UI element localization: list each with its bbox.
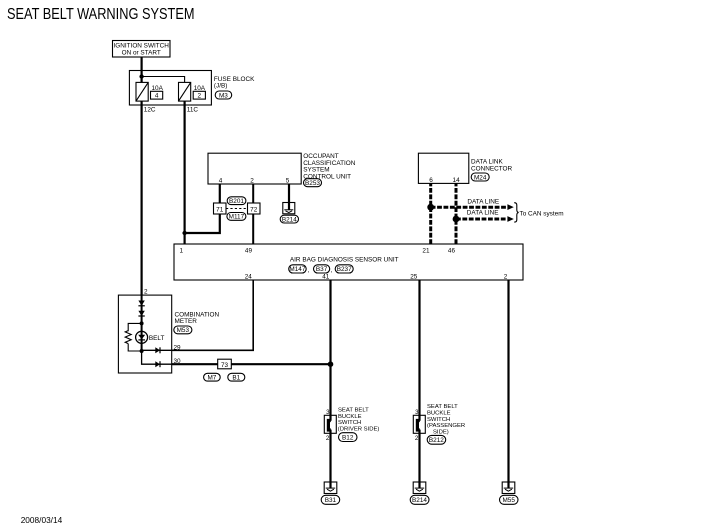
svg-text:DATA LINE: DATA LINE bbox=[467, 198, 499, 205]
svg-text:2: 2 bbox=[198, 93, 202, 100]
wire OCS pin 5 to ground connector bbox=[288, 184, 290, 210]
svg-text:To CAN system: To CAN system bbox=[520, 210, 564, 217]
data link connector M24 bbox=[418, 153, 512, 184]
svg-text:14: 14 bbox=[453, 177, 461, 184]
svg-text:25: 25 bbox=[410, 274, 418, 281]
svg-text:10A: 10A bbox=[194, 85, 206, 92]
svg-text:M24: M24 bbox=[474, 174, 487, 181]
diode D1 (down) bbox=[138, 301, 144, 306]
connector label B201 bbox=[227, 197, 246, 205]
connector 73 bbox=[218, 359, 232, 369]
seat belt buckle switch driver side B12 bbox=[324, 408, 379, 443]
svg-text:BELT: BELT bbox=[149, 335, 165, 342]
svg-text:M55: M55 bbox=[502, 497, 515, 504]
svg-text:DATA LINE: DATA LINE bbox=[467, 210, 499, 217]
wire meter pin 30 to junction with pin 41 wire bbox=[172, 363, 331, 365]
svg-text:2: 2 bbox=[415, 435, 419, 442]
wire 12C to combination meter pin 2 bbox=[141, 101, 143, 295]
svg-text:B201: B201 bbox=[229, 198, 244, 205]
svg-text:B1: B1 bbox=[232, 375, 240, 382]
svg-text:AIR BAG DIAGNOSIS SENSOR UNIT: AIR BAG DIAGNOSIS SENSOR UNIT bbox=[290, 257, 399, 264]
occupant classification system control unit U-B253 bbox=[208, 153, 356, 187]
wire shielded DLC pin 14 to air bag pin 46 bbox=[455, 183, 458, 244]
wire shielded DLC pin 6 to air bag pin 21 bbox=[429, 183, 432, 244]
svg-text:M7: M7 bbox=[207, 375, 216, 382]
svg-text:,: , bbox=[308, 267, 310, 274]
diode D4 (right) to pin 30 bbox=[155, 361, 160, 367]
wire ignition switch to fuse block bbox=[141, 57, 143, 82]
wire OCS pin 2 to air bag pin 49 bbox=[252, 184, 254, 244]
svg-text:METER: METER bbox=[175, 318, 198, 325]
connector label M7 bbox=[204, 373, 221, 381]
wire connector 71 to OCS pin 4 bbox=[219, 184, 221, 203]
svg-text:B37: B37 bbox=[316, 266, 328, 273]
node junction pin41/pin30 bbox=[328, 361, 334, 367]
svg-text:B212: B212 bbox=[429, 437, 444, 444]
svg-text:2: 2 bbox=[144, 289, 148, 296]
svg-text:21: 21 bbox=[422, 247, 430, 254]
connector label B1 bbox=[228, 373, 245, 381]
svg-text:B253: B253 bbox=[305, 180, 320, 187]
svg-text:4: 4 bbox=[155, 93, 159, 100]
svg-text:73: 73 bbox=[221, 362, 229, 369]
diode D3 (right) to pin 29 bbox=[155, 347, 160, 353]
svg-text:2: 2 bbox=[504, 274, 508, 281]
svg-text:IGNITION SWITCH: IGNITION SWITCH bbox=[114, 43, 170, 50]
fuse block box bbox=[129, 71, 211, 106]
svg-text:SIDE): SIDE) bbox=[433, 429, 449, 435]
svg-text:M53: M53 bbox=[177, 327, 190, 334]
resistor branch wire bbox=[128, 323, 141, 331]
svg-text:(DRIVER SIDE): (DRIVER SIDE) bbox=[338, 426, 380, 432]
wire dashed connector link 71-72 bbox=[226, 208, 248, 210]
connector 71 bbox=[214, 203, 227, 214]
fuse 2 (10A) bbox=[179, 82, 206, 101]
svg-text:M117: M117 bbox=[229, 214, 245, 221]
svg-text:71: 71 bbox=[216, 207, 224, 214]
combination meter M53 bbox=[118, 289, 219, 374]
svg-text:(PASSENGER: (PASSENGER bbox=[427, 423, 465, 429]
svg-text:12C: 12C bbox=[144, 107, 156, 114]
wire 11C to air bag unit pin 1 bbox=[184, 101, 186, 244]
connector label M117 bbox=[227, 213, 246, 221]
wire driver switch to ground B31 bbox=[329, 430, 331, 488]
ground B214 (bottom) bbox=[410, 482, 429, 504]
svg-text:BUCKLE: BUCKLE bbox=[427, 411, 451, 417]
ground B31 bbox=[321, 482, 340, 504]
diode D2 (down) bbox=[138, 311, 144, 316]
ground B214 (OCS) bbox=[280, 203, 298, 224]
svg-text:10A: 10A bbox=[152, 85, 164, 92]
wire air bag pin 25 down to passenger switch bbox=[418, 280, 420, 421]
node junction above lamp bbox=[140, 321, 144, 325]
svg-text:3: 3 bbox=[326, 409, 330, 416]
wire to pin 29 bbox=[142, 349, 172, 351]
resistor R (zigzag) bbox=[125, 331, 131, 344]
svg-text:(J/B): (J/B) bbox=[214, 83, 228, 90]
wire air bag pin 2 down to ground M55 bbox=[507, 280, 509, 488]
svg-text:CONNECTOR: CONNECTOR bbox=[471, 165, 512, 172]
svg-text:41: 41 bbox=[322, 274, 330, 281]
svg-text:B237: B237 bbox=[337, 266, 352, 273]
svg-text:2: 2 bbox=[326, 435, 330, 442]
air bag diagnosis sensor unit bbox=[174, 244, 523, 281]
lamp BELT bbox=[136, 331, 165, 343]
to CAN system brace bbox=[514, 203, 518, 222]
wire meter internal vertical bbox=[141, 295, 143, 351]
svg-text:B31: B31 bbox=[325, 497, 337, 504]
wire passenger switch to ground B214 bbox=[418, 430, 420, 488]
fuse block label bbox=[214, 76, 255, 99]
seat belt buckle switch passenger side B212 bbox=[413, 404, 465, 444]
connector 72 bbox=[248, 203, 261, 214]
svg-text:B214: B214 bbox=[282, 216, 297, 223]
fuse 4 (10A) bbox=[136, 82, 164, 101]
svg-text:46: 46 bbox=[448, 247, 456, 254]
svg-text:11C: 11C bbox=[187, 107, 199, 114]
svg-text:49: 49 bbox=[245, 247, 253, 254]
svg-text:B214: B214 bbox=[412, 497, 427, 504]
svg-text:72: 72 bbox=[250, 207, 258, 214]
svg-text:,: , bbox=[331, 267, 333, 274]
wire branch to fuse 2 bbox=[142, 77, 185, 83]
node junction data line 2 bbox=[453, 216, 460, 223]
svg-text:24: 24 bbox=[245, 274, 253, 281]
svg-text:SWITCH: SWITCH bbox=[427, 417, 450, 423]
svg-text:ON or START: ON or START bbox=[122, 50, 161, 57]
svg-text:SWITCH: SWITCH bbox=[338, 420, 361, 426]
svg-text:4: 4 bbox=[219, 178, 223, 185]
wire air bag pin 24 to meter pin 29 bbox=[172, 280, 254, 350]
svg-text:2: 2 bbox=[250, 178, 254, 185]
svg-text:1: 1 bbox=[179, 247, 183, 254]
svg-text:2008/03/14: 2008/03/14 bbox=[21, 515, 63, 525]
ground M55 bbox=[500, 482, 519, 504]
node junction in fuse block bbox=[139, 74, 143, 78]
svg-text:M3: M3 bbox=[219, 92, 228, 99]
svg-text:3: 3 bbox=[415, 409, 419, 416]
node junction data line 1 bbox=[427, 204, 434, 211]
svg-text:BUCKLE: BUCKLE bbox=[338, 414, 362, 420]
svg-text:SEAT BELT: SEAT BELT bbox=[338, 408, 369, 414]
wire data line 1 bbox=[431, 206, 507, 209]
svg-text:M147: M147 bbox=[289, 266, 305, 273]
wire to pin 30 bbox=[142, 351, 172, 364]
ignition switch node bbox=[113, 41, 171, 58]
node junction below lamp bbox=[140, 349, 144, 353]
svg-text:SEAT BELT WARNING SYSTEM: SEAT BELT WARNING SYSTEM bbox=[7, 6, 195, 23]
svg-text:6: 6 bbox=[429, 177, 433, 184]
wire junction to connector 71 bbox=[185, 214, 220, 233]
svg-text:5: 5 bbox=[286, 178, 290, 185]
node junction on 11C wire bbox=[182, 231, 186, 235]
wire data line 2 bbox=[456, 218, 507, 221]
wire air bag pin 41 down to driver switch bbox=[329, 280, 331, 421]
svg-text:SEAT BELT: SEAT BELT bbox=[427, 404, 458, 410]
svg-text:B12: B12 bbox=[342, 435, 354, 442]
